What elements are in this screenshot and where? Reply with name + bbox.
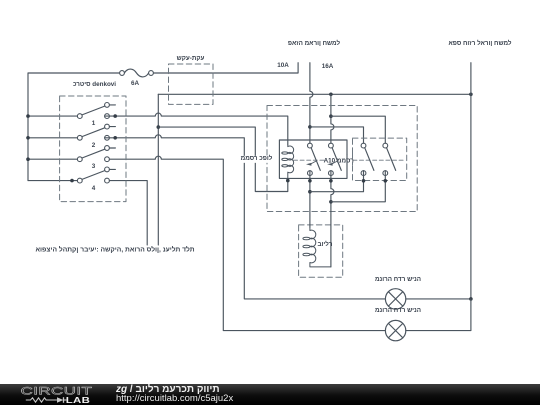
label: bedroom lamp 2: [375, 308, 421, 314]
node: neutral junction to coil return: [157, 125, 161, 129]
wire W4: switch4 output to open option end: [109, 181, 147, 245]
relay coil: [282, 144, 294, 180]
wire: neutral drop through plug down to open option end: [157, 94, 159, 245]
wire W1: switch1 output to relay coil top (hop over neutral drop): [105, 113, 288, 144]
node: neutral junction to switch B: [329, 93, 333, 97]
node: bus junction row2: [26, 136, 30, 140]
wire: row 3 from bus to switch 3 common: [28, 158, 77, 160]
wire: row 1 from bus to switch 1 common: [28, 115, 77, 117]
wire: neutral horizontal from plug corner to panel vertical: [158, 93, 471, 95]
dashed box: boiler: [299, 225, 343, 277]
wire: fuse to 10A breaker stub: [153, 63, 298, 73]
label: 6A: [131, 80, 139, 86]
label: switch 1: [92, 121, 96, 127]
label: 16A: [322, 63, 334, 69]
wire: branch to switch C top: [310, 127, 364, 143]
wire: phase 16A vertical with hop over neutral: [310, 63, 313, 127]
footer CircuitLab logo: [0, 384, 140, 405]
wire: phase down to relay switch A top: [309, 127, 311, 143]
node: phase branch to switch C: [308, 125, 312, 129]
footer bar: [0, 384, 540, 405]
denkovi switch 4: [77, 167, 115, 183]
denkovi switch 2: [77, 124, 115, 140]
label: plug-socket: [177, 55, 205, 61]
denkovi switch 3: [77, 146, 115, 162]
relay switch C: [361, 143, 374, 175]
label: switch 4: [92, 185, 96, 191]
label: switch 3: [92, 164, 96, 170]
node: lamp return junction: [469, 297, 473, 301]
label: switch 2: [92, 143, 96, 149]
node: bus junction row1: [26, 114, 30, 118]
denkovi switch 1: [77, 103, 115, 119]
label: relay A10 (white bg, under levers): [324, 155, 355, 165]
label: 10A: [277, 63, 289, 69]
node: W1 start junction: [113, 114, 117, 118]
wire: branch to switch D top: [331, 116, 385, 143]
wire: switch A bottom down to boiler coil top: [309, 171, 311, 228]
node: branch to switch D bottom: [329, 200, 333, 204]
wire: lamp2 right up to lamp1 node: [406, 299, 471, 331]
node: switch B pin: [329, 179, 333, 183]
node: W2 start junction: [113, 136, 117, 140]
dashed box: relay A10: [353, 138, 407, 180]
node: switch A pin: [308, 179, 312, 183]
relay switch B: [329, 143, 342, 175]
dashed box: denkovi card: [60, 96, 126, 202]
fuse F1 6A: [120, 69, 154, 77]
wire: branch switch C bottom: [310, 171, 364, 192]
relay switch D: [383, 143, 396, 175]
node: branch to switch C bottom: [308, 190, 312, 194]
node: neutral meets panel vertical: [469, 93, 473, 97]
node: bus junction row3: [26, 157, 30, 161]
lamp 2 bedroom: [385, 320, 405, 340]
wire: branch switch D bottom: [331, 171, 385, 202]
node: junction branch to switch D: [329, 114, 333, 118]
footer title text: [116, 385, 220, 395]
wire: row 2 from bus to switch 2 common: [28, 137, 77, 139]
lamp 1 bedroom: [385, 289, 405, 309]
A10 box left edge over label: [352, 154, 354, 165]
wire W3: switch3 output down to lamp 2 (hop over neutral drop): [109, 156, 385, 330]
node: switch C pin: [362, 179, 366, 183]
relay switch A: [308, 143, 321, 175]
node: coil bottom pin: [286, 179, 290, 183]
node: switch D pin: [384, 179, 388, 183]
label: double relay: [240, 156, 274, 162]
label: boiler: [317, 242, 332, 248]
svg-text:LAB: LAB: [66, 396, 90, 405]
relay mechanical link dashed line: [294, 159, 405, 161]
wire: row 4 from bus to switch 4 common: [28, 180, 77, 182]
wire: switch B top drop with hop, to relay switch B: [331, 94, 334, 143]
relay actuation arrow B: [327, 161, 338, 166]
node: junction before switch 4 common: [70, 179, 74, 183]
wire W2: switch2 output down to lamp 1 (hop over neutral drop): [105, 135, 386, 299]
note: option for a fourth device: [35, 248, 194, 255]
wire: lamp1 right to neutral vertical: [406, 298, 471, 300]
dashed box: double relay outer: [267, 106, 417, 212]
dashed box: plug-socket: [169, 64, 214, 104]
label: bedroom lamp 1: [375, 276, 421, 282]
boiler heating element coil: [303, 227, 331, 267]
wire: switch B bottom down to boiler return (hops over C branch): [331, 171, 334, 267]
relay U1: solid box: [279, 140, 347, 178]
label: phase from electrical panel: [288, 41, 340, 47]
label: denkovi card: [73, 82, 116, 88]
label: neutral return to electrical panel: [448, 41, 511, 47]
wire: neutral panel vertical: [470, 63, 472, 299]
wire: relay coil return (coil bottom, left, up, to neutral drop): [158, 127, 287, 191]
wire: left bus vertical + top wire to fuse: [28, 73, 120, 181]
relay box right edge over label: [346, 155, 348, 165]
footer url: [116, 394, 233, 404]
relay actuation arrow A: [306, 161, 317, 166]
